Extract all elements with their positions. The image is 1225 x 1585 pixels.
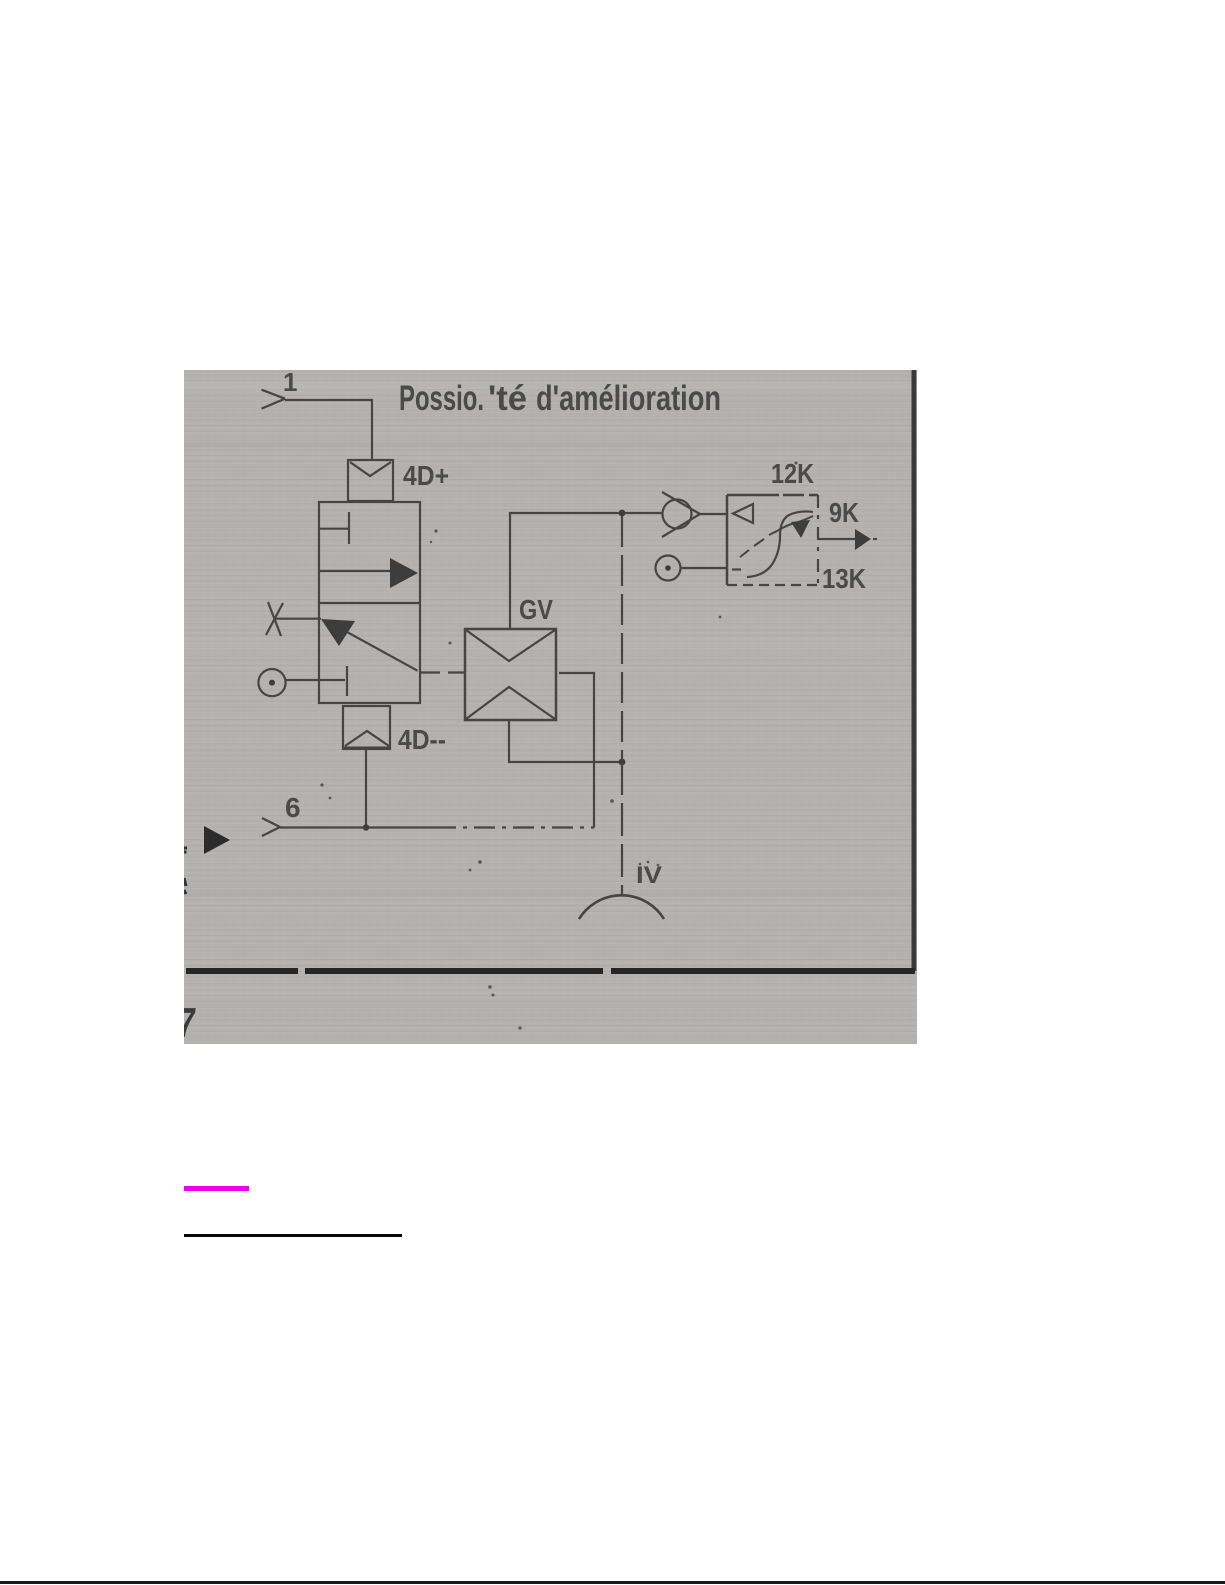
pilot box 4D- — [343, 706, 390, 749]
svg-text:6: 6 — [285, 792, 301, 823]
wire from node 1 to valve pilot 4D+ — [285, 400, 372, 460]
exhaust X symbol — [266, 602, 321, 636]
wire valve to GV (dashed) — [421, 671, 465, 673]
svg-text:GV: GV — [519, 594, 553, 625]
flow arrow (top cell) — [319, 558, 418, 588]
amplifier box 12K — [727, 495, 818, 585]
wire GV top up and right to check valve — [510, 513, 663, 629]
junction node B — [619, 759, 626, 766]
wire GV right port down to node 6 — [559, 673, 594, 828]
scanned figure area — [184, 370, 917, 1044]
labels — [175, 367, 866, 1046]
svg-text:'té: 'té — [488, 379, 527, 418]
pilot box 4D+ — [348, 460, 393, 501]
blocked port T (top cell) — [319, 512, 349, 544]
node 1 connector — [262, 390, 286, 409]
svg-text:4D+: 4D+ — [403, 460, 449, 491]
output wire with arrow to 9K — [818, 529, 877, 550]
svg-text:1: 1 — [283, 370, 297, 397]
svg-text:4D--: 4D-- — [398, 724, 446, 755]
black underline — [184, 1234, 402, 1237]
magenta underline — [184, 1186, 249, 1191]
valve body 4D — [319, 502, 420, 703]
valve GV — [465, 629, 556, 720]
wire node B down to exhaust IV (dashed) — [621, 762, 623, 894]
junction node A — [619, 510, 626, 517]
scan bottom heavy rule — [186, 968, 915, 974]
pilot circle for 12K — [656, 556, 728, 581]
svg-text:13K: 13K — [822, 563, 866, 594]
page margin marker triangle — [204, 826, 230, 854]
node 6 connector — [262, 818, 280, 836]
junction on node 6 wire — [363, 824, 369, 830]
wire GV bottom port to node B — [509, 720, 622, 762]
svg-text:9K: 9K — [829, 497, 859, 528]
scan right border — [912, 370, 917, 971]
wire node 6 (dash-dot) — [280, 826, 594, 828]
wire 4D- down to node 6 line — [365, 749, 367, 828]
left edge marks — [184, 848, 187, 894]
svg-text:Possio.: Possio. — [399, 379, 484, 418]
bottom page rule — [0, 1581, 1225, 1584]
flow arrow (bottom cell, diagonal) — [321, 619, 418, 671]
svg-text:7: 7 — [184, 999, 198, 1044]
speckle noise — [320, 462, 797, 1030]
exhaust dome IV — [579, 895, 664, 919]
svg-text:12K: 12K — [771, 458, 814, 489]
svg-text:d'amélioration: d'amélioration — [536, 379, 721, 418]
pilot source circle (left) — [258, 666, 347, 696]
check valve — [662, 492, 727, 537]
vertical pilot line from node A (dashed) — [621, 516, 623, 762]
